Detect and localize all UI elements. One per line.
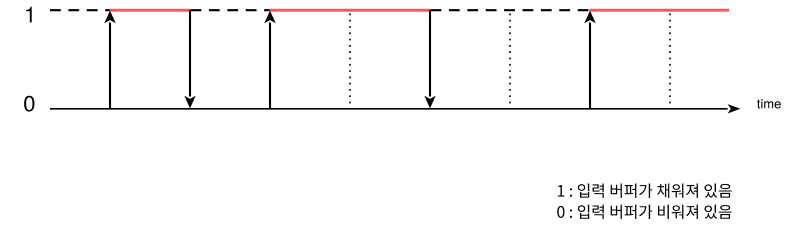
label 1 (level one) xyxy=(26,7,31,23)
time axis label xyxy=(757,99,781,108)
red high segment 3 xyxy=(590,9,730,12)
down arrow 1 shaft xyxy=(189,10,191,96)
level-1 dashed line segment C xyxy=(431,9,591,11)
red high segment 1 xyxy=(110,9,191,12)
up arrow 3 head xyxy=(584,11,595,24)
down arrow 2 head xyxy=(424,96,435,109)
red high segment 2 xyxy=(270,9,431,12)
dotted marker line 3 xyxy=(669,14,671,109)
dotted marker line 1 xyxy=(349,14,351,109)
legend line 2: "0 : input buffer emptied" (Korean, vector paths) xyxy=(557,205,731,219)
level-1 dashed line segment B xyxy=(191,9,271,11)
up arrow 2 shaft xyxy=(269,23,271,109)
label 0 (level zero) xyxy=(24,96,34,112)
time axis arrowhead xyxy=(728,104,741,113)
up arrow 2 head xyxy=(264,11,275,24)
down arrow 2 shaft xyxy=(429,10,431,96)
time axis (level 0) xyxy=(50,108,728,110)
up arrow 1 head xyxy=(104,11,115,24)
up arrow 3 shaft xyxy=(589,23,591,109)
legend line 1: "1 : input buffer filled" (Korean, vector paths) xyxy=(558,184,732,198)
down arrow 1 head xyxy=(184,96,195,109)
dotted marker line 2 xyxy=(509,14,511,109)
level-1 dashed line segment A xyxy=(50,9,110,11)
up arrow 1 shaft xyxy=(109,23,111,109)
